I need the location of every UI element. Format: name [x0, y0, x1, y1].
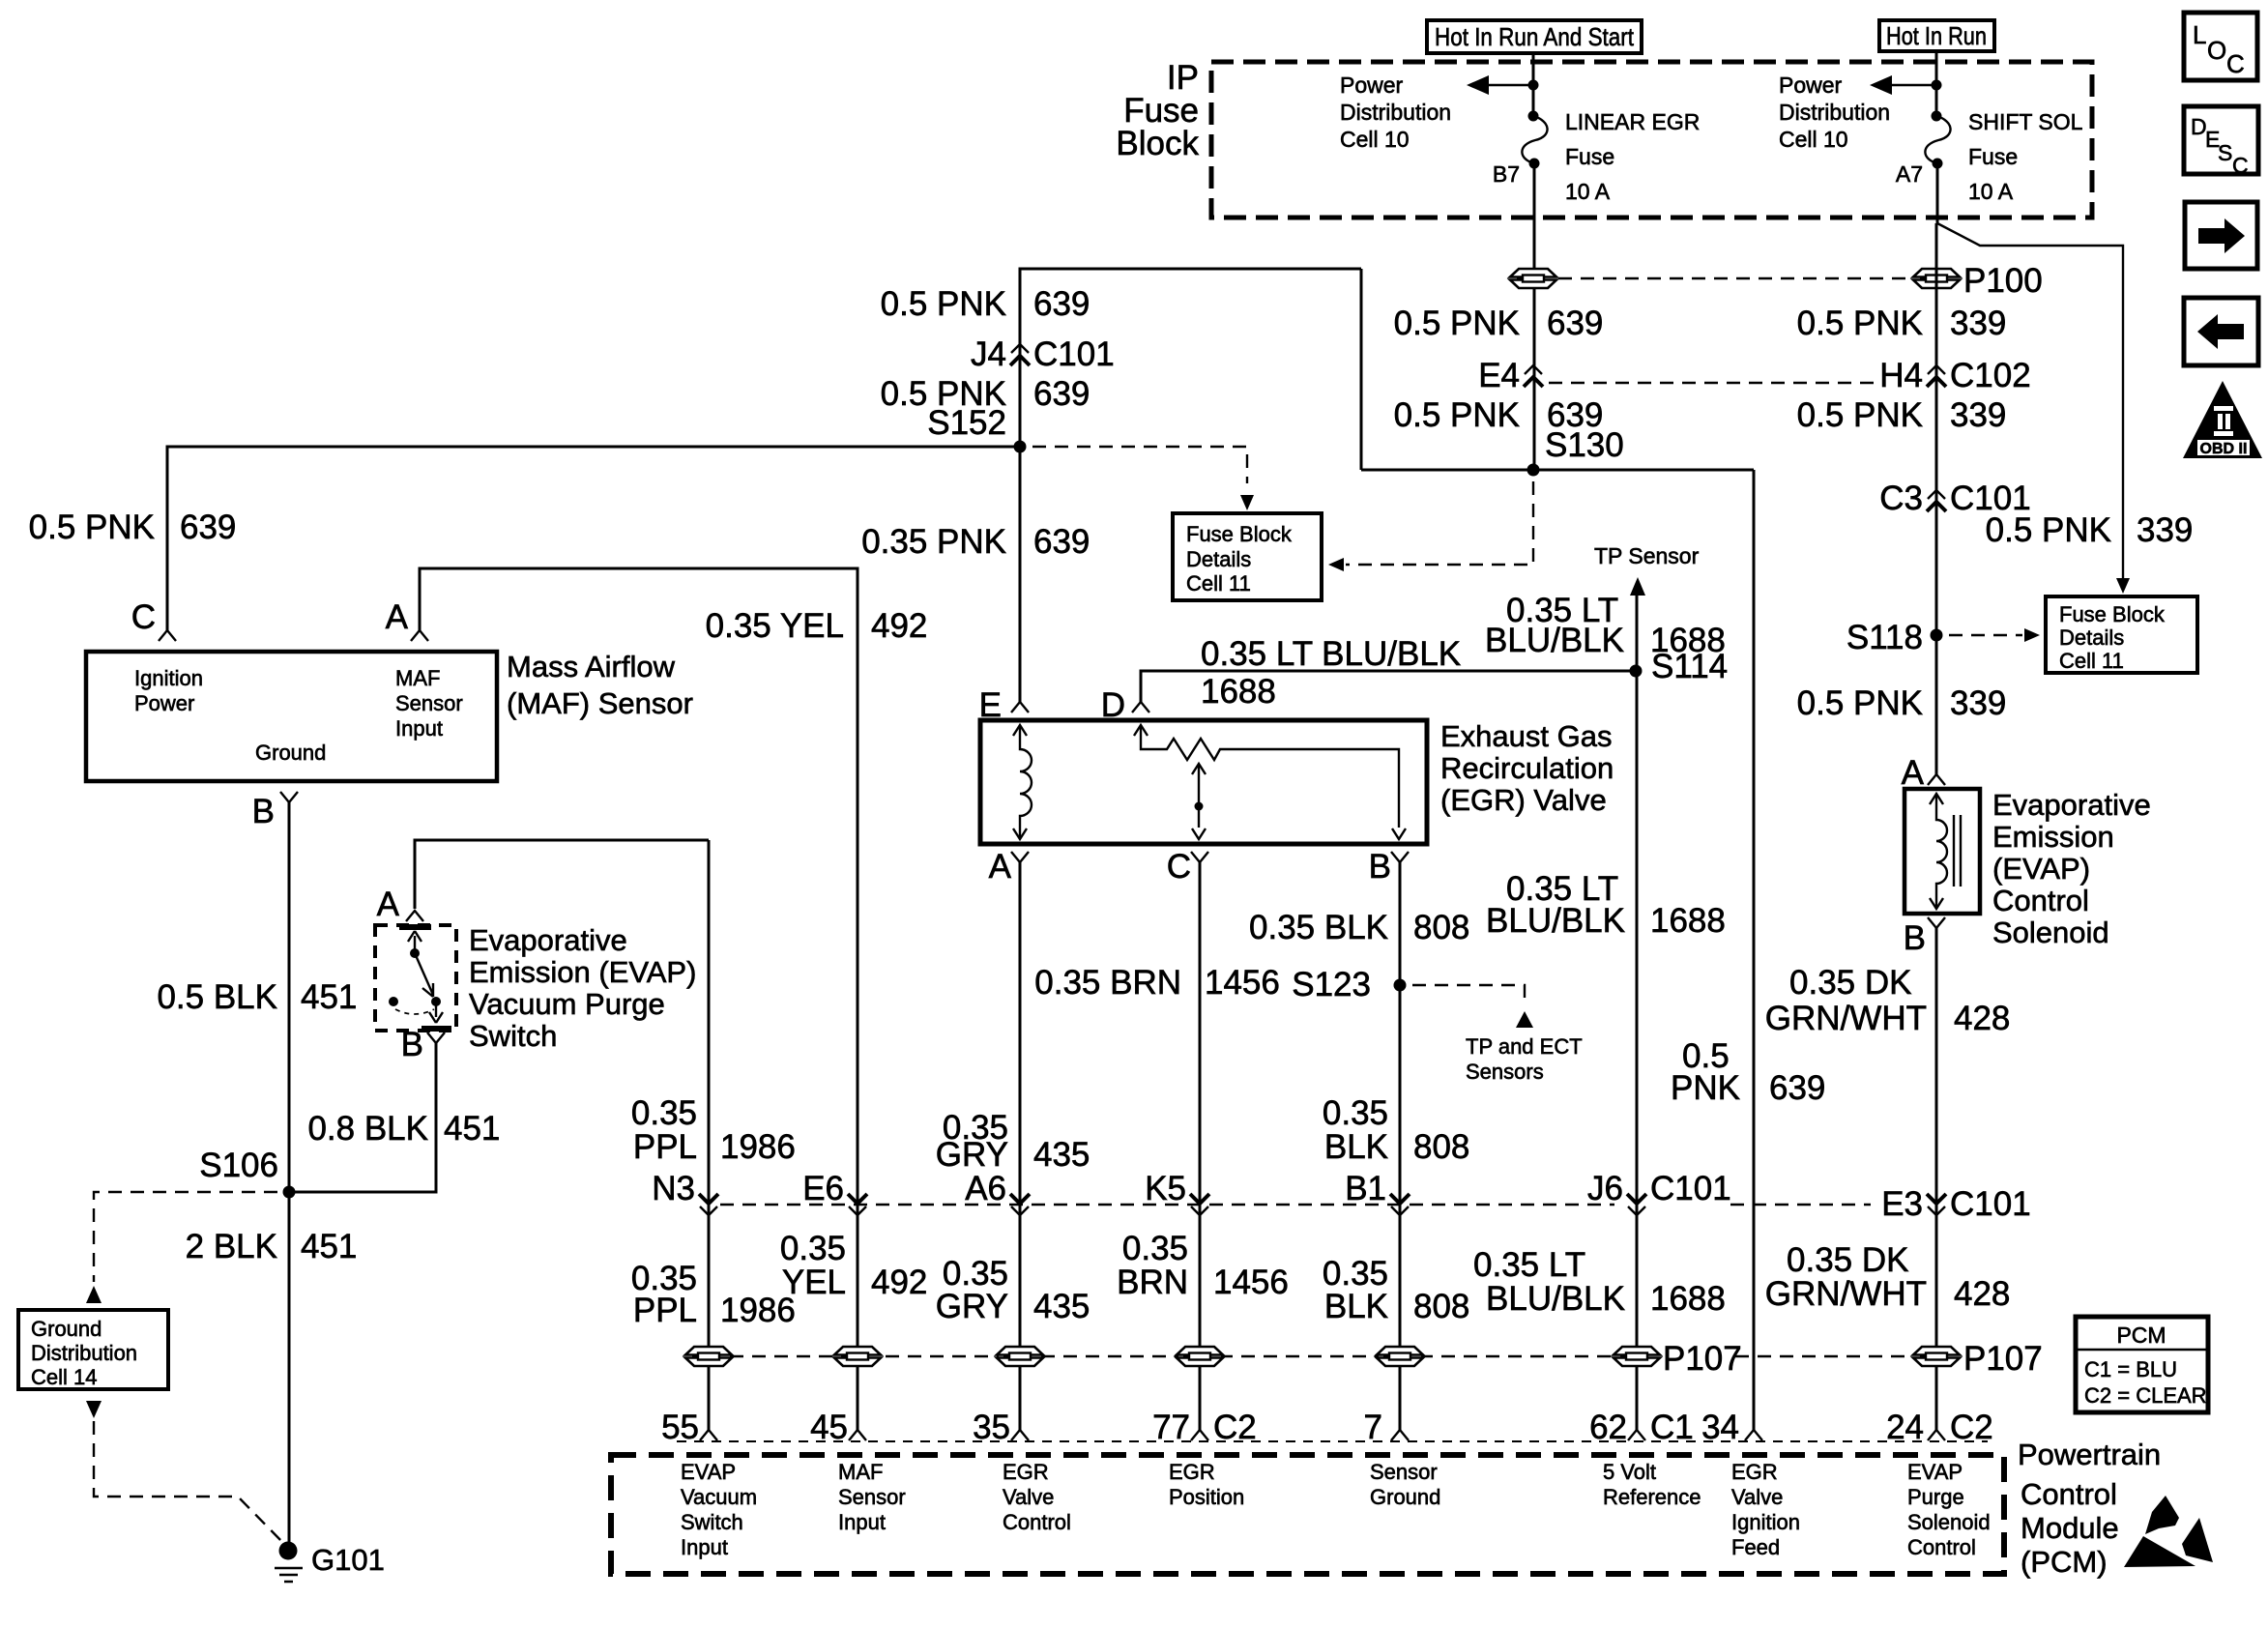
dashed pin face line [677, 1440, 1988, 1442]
switch right contact dot [431, 997, 441, 1006]
svg-text:Exhaust Gas: Exhaust Gas [1440, 719, 1612, 753]
component PCM (dashed box) [611, 1455, 2004, 1574]
svg-text:Sensor: Sensor [838, 1485, 906, 1509]
svg-text:GRY: GRY [936, 1288, 1008, 1325]
svg-text:Block: Block [1116, 125, 1199, 162]
svg-text:Fuse: Fuse [1565, 144, 1614, 169]
label TP and ECT Sensors [1466, 1034, 1583, 1084]
switch left contact dot [389, 997, 398, 1006]
label EGR Valve Ignition Feed [1731, 1460, 1800, 1559]
svg-text:GRN/WHT: GRN/WHT [1765, 1000, 1927, 1037]
svg-text:639: 639 [180, 509, 236, 546]
svg-text:C3: C3 [1879, 480, 1923, 517]
node Hot In Run [1879, 20, 1994, 51]
component MAF sensor box [86, 652, 497, 781]
svg-text:0.35 YEL: 0.35 YEL [706, 607, 844, 645]
label 0.35 LT BLU/BLK 1688 (below S114) [1486, 870, 1726, 940]
switch dashed travel arc [395, 1009, 434, 1014]
svg-text:EGR: EGR [1169, 1460, 1215, 1484]
svg-text:B: B [401, 1026, 423, 1063]
svg-text:639: 639 [1769, 1069, 1825, 1107]
wire S130 horizontal [1361, 469, 1754, 472]
label 5 Volt Reference [1603, 1460, 1701, 1509]
svg-text:BLK: BLK [1324, 1128, 1388, 1166]
svg-text:(EVAP): (EVAP) [1992, 852, 2090, 886]
svg-text:E3: E3 [1881, 1185, 1923, 1223]
svg-text:Evaporative: Evaporative [469, 923, 627, 957]
svg-text:J6: J6 [1587, 1170, 1623, 1207]
svg-text:MAF: MAF [395, 666, 440, 690]
svg-text:LINEAR EGR: LINEAR EGR [1565, 109, 1700, 134]
label 0.35 BLK 808 (upper) [1249, 909, 1469, 946]
component EVAP purge switch (dashed box) [375, 925, 456, 1031]
pin A of MAF [411, 630, 428, 641]
svg-text:BRN: BRN [1117, 1264, 1188, 1301]
svg-text:C: C [1167, 848, 1191, 886]
svg-text:Evaporative: Evaporative [1992, 788, 2151, 822]
label MAF Sensor Input [838, 1460, 906, 1534]
label 0.35 YEL 492 [706, 607, 928, 645]
svg-text:G101: G101 [311, 1543, 385, 1577]
svg-text:YEL: YEL [782, 1264, 846, 1301]
label Power Distribution Cell 10 (right) [1779, 73, 1890, 152]
svg-text:A: A [377, 886, 400, 923]
ESD sensitivity symbol [2124, 1496, 2213, 1567]
label 0.5 PNK 639 (above J4) [881, 285, 1090, 323]
label 0.35 BLK 808 (above B1) [1323, 1094, 1470, 1166]
label 0.5 BLK 451 [157, 978, 357, 1016]
svg-text:Power: Power [1779, 73, 1843, 98]
component EGR valve box [980, 720, 1427, 844]
junction dot [1932, 80, 1942, 91]
svg-text:5 Volt: 5 Volt [1603, 1460, 1656, 1484]
svg-text:L: L [2193, 20, 2206, 49]
wire branch to 339 feed (diagonal) [1937, 223, 2123, 580]
arrow into Fuse Block Details (S118) [2024, 628, 2040, 642]
svg-text:451: 451 [301, 978, 357, 1016]
icon forward arrow box [2185, 202, 2257, 269]
node PCM connector legend [2076, 1317, 2208, 1412]
svg-text:Input: Input [838, 1510, 886, 1534]
svg-text:Switch: Switch [469, 1019, 557, 1053]
svg-text:A7: A7 [1896, 161, 1923, 187]
label SHIFT SOL Fuse 10 A [1968, 109, 2083, 204]
EGR position sensor resistor [1134, 725, 1406, 839]
IP fuse block (dashed box) [1211, 62, 2092, 218]
svg-text:C: C [131, 598, 156, 636]
wire purge switch B to S106 [289, 1043, 436, 1192]
svg-text:Fuse: Fuse [1968, 144, 2018, 169]
label 0.35 PNK 639 [861, 523, 1090, 561]
svg-text:P107: P107 [1663, 1340, 1742, 1378]
svg-text:C101: C101 [1650, 1170, 1731, 1207]
svg-text:Distribution: Distribution [31, 1341, 137, 1365]
pin C of EGR [1191, 852, 1208, 862]
arrow to Power Distribution Cell 10 (left) [1467, 75, 1489, 95]
svg-text:A: A [989, 848, 1012, 886]
pin 7 [1391, 1430, 1409, 1440]
icon LOC box [2184, 13, 2257, 80]
svg-text:339: 339 [1950, 396, 2006, 434]
connector K5 C101 [1190, 1194, 1209, 1215]
label 0.5 PNK 639 (far left) [29, 509, 237, 546]
label EVAP Purge Solenoid Control [1907, 1460, 1991, 1559]
svg-text:0.35 DK: 0.35 DK [1789, 964, 1911, 1002]
svg-text:0.35: 0.35 [1323, 1094, 1388, 1132]
svg-text:Control: Control [2021, 1477, 2117, 1511]
label Ignition Power [134, 666, 203, 715]
svg-text:Ignition: Ignition [134, 666, 203, 690]
pin 62 C1 [1628, 1430, 1645, 1440]
label Power Distribution Cell 10 (left) [1340, 73, 1451, 152]
svg-text:0.35 BRN: 0.35 BRN [1034, 964, 1181, 1002]
connector P107 (62) [1614, 1347, 1660, 1366]
EGR position wiper [1192, 764, 1206, 839]
wire S152 to MAF ignition [167, 447, 1020, 630]
svg-text:0.5 PNK: 0.5 PNK [1797, 305, 1923, 342]
connector N3 C101 [699, 1194, 718, 1215]
svg-text:B7: B7 [1493, 161, 1520, 187]
svg-text:0.35: 0.35 [631, 1094, 697, 1132]
svg-text:Reference: Reference [1603, 1485, 1701, 1509]
label 0.35 BRN 1456 (lower) [1117, 1230, 1289, 1301]
svg-text:BLU/BLK: BLU/BLK [1485, 622, 1624, 659]
label 0.5 PNK 339 (feed wire right) [1986, 511, 2194, 549]
node Ground Distribution Cell 14 [18, 1310, 168, 1389]
svg-text:C102: C102 [1950, 357, 2031, 394]
inline connector (unnamed, P100 row) [1510, 269, 1556, 288]
pin 34 [1745, 1430, 1762, 1440]
svg-text:P107: P107 [1963, 1340, 2043, 1378]
switch blade [415, 953, 433, 997]
wire PNK 339 fuse A7 down [1936, 163, 1939, 223]
svg-text:Cell 10: Cell 10 [1779, 127, 1848, 152]
svg-text:OBD II: OBD II [2200, 441, 2248, 457]
wire corner from fuse block area down to J4 [1020, 269, 1361, 702]
svg-text:S106: S106 [199, 1147, 278, 1184]
svg-text:0.5 PNK: 0.5 PNK [1394, 396, 1520, 434]
wire PNK 339 down to EVAP solenoid [1935, 223, 1938, 774]
svg-text:EGR: EGR [1003, 1460, 1049, 1484]
pin B of MAF [280, 792, 298, 802]
dashed S123 to TP and ECT sensors [1412, 985, 1525, 1005]
connector P100 [1913, 269, 1960, 288]
svg-text:Solenoid: Solenoid [1992, 916, 2109, 949]
svg-text:1456: 1456 [1205, 964, 1280, 1002]
svg-text:339: 339 [2137, 511, 2193, 549]
node Fuse Block Details Cell 11 (right) [2046, 596, 2197, 673]
svg-text:Hot In Run And Start: Hot In Run And Start [1435, 22, 1635, 51]
svg-text:0.35 DK: 0.35 DK [1787, 1241, 1908, 1279]
fuse LINEAR EGR 10A [1522, 111, 1547, 169]
svg-text:Switch: Switch [681, 1510, 743, 1534]
wire PNK 639 fuse B7 down to S130 [1533, 163, 1536, 470]
svg-text:Position: Position [1169, 1485, 1244, 1509]
svg-text:Input: Input [395, 716, 443, 741]
svg-text:PNK: PNK [1671, 1069, 1740, 1107]
label 0.35 GRY 435 (upper) [936, 1109, 1090, 1174]
arrow to TP and ECT sensors [1516, 1011, 1533, 1028]
svg-text:808: 808 [1413, 1288, 1469, 1325]
svg-text:K5: K5 [1145, 1170, 1186, 1207]
svg-text:Solenoid: Solenoid [1907, 1510, 1991, 1534]
svg-text:BLU/BLK: BLU/BLK [1486, 1280, 1625, 1318]
label Exhaust Gas Recirculation (EGR) Valve [1440, 719, 1614, 817]
label 0.35 BRN 1456 (upper) [1034, 964, 1280, 1002]
svg-text:A: A [1902, 754, 1925, 792]
svg-text:Vacuum Purge: Vacuum Purge [469, 987, 665, 1021]
svg-text:428: 428 [1954, 1275, 2010, 1313]
svg-text:C: C [2232, 153, 2249, 178]
wire from Hot In Run to fuse [1935, 51, 1938, 116]
svg-text:H4: H4 [1879, 357, 1923, 394]
svg-text:0.35 LT BLU/BLK: 0.35 LT BLU/BLK [1201, 635, 1461, 673]
svg-text:Module: Module [2021, 1511, 2119, 1545]
svg-text:PPL: PPL [633, 1292, 697, 1329]
svg-text:MAF: MAF [838, 1460, 883, 1484]
wire EGR C down to pin 77 [1199, 862, 1202, 1430]
svg-text:C101: C101 [1033, 335, 1115, 373]
connector P107 lens (77) [1177, 1347, 1223, 1366]
connector H4 C102 [1927, 365, 1946, 387]
svg-text:Power: Power [134, 691, 194, 715]
arrow into Fuse Block Details (S152) [1240, 495, 1254, 510]
svg-text:Cell 11: Cell 11 [2059, 649, 2124, 673]
EVAP solenoid coil [1930, 794, 1947, 909]
svg-text:B: B [1904, 919, 1926, 957]
svg-text:S123: S123 [1292, 966, 1371, 1003]
svg-text:EGR: EGR [1731, 1460, 1778, 1484]
pin A of EVAP solenoid [1928, 774, 1945, 785]
svg-text:Mass Airflow: Mass Airflow [507, 650, 676, 683]
wire MAF A to YEL 492 [420, 568, 858, 1430]
connector E4 [1524, 365, 1543, 387]
svg-text:(PCM): (PCM) [2021, 1545, 2108, 1579]
svg-text:Feed: Feed [1731, 1535, 1780, 1559]
svg-text:TP Sensor: TP Sensor [1594, 543, 1700, 568]
svg-text:Emission: Emission [1992, 820, 2114, 854]
svg-text:0.8 BLK: 0.8 BLK [307, 1110, 428, 1148]
svg-text:0.35 BLK: 0.35 BLK [1249, 909, 1388, 946]
pin B of EGR [1391, 852, 1409, 862]
svg-text:Details: Details [2059, 625, 2124, 650]
svg-text:435: 435 [1033, 1288, 1090, 1325]
switch bottom contact bar [422, 1026, 451, 1032]
junction dot [1528, 80, 1539, 91]
node Hot In Run And Start [1427, 20, 1642, 53]
svg-text:SHIFT SOL: SHIFT SOL [1968, 109, 2083, 134]
arrow to Power Distribution Cell 10 (right) [1870, 75, 1892, 95]
wire EGR D to S114 [1141, 671, 1636, 702]
svg-text:639: 639 [1547, 305, 1603, 342]
wire EGR A down to pin 35 [1019, 862, 1022, 1430]
svg-text:Powertrain: Powertrain [2018, 1438, 2161, 1471]
svg-text:BLU/BLK: BLU/BLK [1486, 902, 1625, 940]
svg-text:(MAF) Sensor: (MAF) Sensor [507, 686, 693, 720]
arrow into Fuse Block Details (S130) [1328, 558, 1344, 571]
svg-text:C: C [2226, 49, 2245, 78]
svg-text:E: E [979, 686, 1002, 724]
dashed E4 row [1549, 382, 1878, 384]
wire vertical into S130 line [1360, 269, 1363, 470]
svg-text:Sensors: Sensors [1466, 1060, 1544, 1084]
svg-text:EVAP: EVAP [1907, 1460, 1963, 1484]
dashed S106 to ground distribution [94, 1192, 277, 1282]
connector A6 C101 [1010, 1194, 1030, 1215]
svg-text:Emission (EVAP): Emission (EVAP) [469, 955, 696, 989]
arrow out of Ground Distribution box [86, 1401, 102, 1418]
connector P107 lens (35) [997, 1347, 1043, 1366]
label 0.5 PNK 639 (above E4) [1394, 305, 1604, 342]
pin 35 [1011, 1430, 1029, 1440]
svg-text:Purge: Purge [1907, 1485, 1964, 1509]
svg-text:Sensor: Sensor [395, 691, 463, 715]
pin 24 C2 [1928, 1430, 1945, 1440]
wire purge switch A to PPL wire [415, 840, 709, 909]
pin D of EGR [1132, 702, 1149, 712]
icon DESC box [2184, 106, 2258, 178]
connector B1 C101 [1390, 1194, 1410, 1215]
wire MAF ground to G101 [288, 802, 291, 1543]
svg-text:Hot In Run: Hot In Run [1886, 21, 1987, 50]
svg-text:S114: S114 [1651, 648, 1728, 685]
svg-text:Control: Control [1003, 1510, 1071, 1534]
label 0.5 PNK 639 (ignition feed) [1671, 1037, 1825, 1107]
label LINEAR EGR Fuse 10 A [1565, 109, 1700, 204]
connector E3 C101 [1927, 1194, 1946, 1215]
ground G101 [275, 1542, 303, 1583]
label 0.5 PNK 339 (above H4) [1797, 305, 2007, 342]
label 0.35 YEL 492 (lower) [780, 1230, 928, 1301]
svg-text:639: 639 [1033, 523, 1090, 561]
pin B of purge switch [427, 1032, 445, 1043]
svg-text:S130: S130 [1545, 426, 1624, 464]
svg-text:E6: E6 [802, 1170, 844, 1207]
pin A of EGR [1011, 852, 1029, 862]
wire from Hot In Run And Start to fuse [1532, 53, 1535, 116]
svg-text:492: 492 [871, 607, 927, 645]
label 2 BLK 451 [186, 1228, 358, 1265]
svg-text:B: B [1369, 848, 1391, 886]
svg-text:435: 435 [1033, 1136, 1090, 1174]
svg-text:D: D [1101, 686, 1125, 724]
label 0.35 BLK 808 (lower) [1323, 1255, 1470, 1325]
switch fixed contact bar [399, 924, 431, 930]
svg-text:Vacuum: Vacuum [681, 1485, 757, 1509]
label 0.5 PNK 339 (below H4) [1797, 396, 2007, 434]
pin 77 C2 [1191, 1430, 1208, 1440]
svg-text:0.35 PNK: 0.35 PNK [861, 523, 1006, 561]
svg-text:Recirculation: Recirculation [1440, 751, 1614, 785]
EGR solenoid coil [1013, 725, 1032, 839]
label 0.35 PPL 1986 (lower) [631, 1260, 796, 1329]
pin 45 [849, 1430, 866, 1440]
svg-text:Input: Input [681, 1535, 728, 1559]
connector P107 lens (45) [834, 1347, 881, 1366]
connector J6 C101 [1627, 1194, 1646, 1215]
svg-text:451: 451 [301, 1228, 357, 1265]
icon back arrow box [2184, 298, 2258, 365]
svg-text:EVAP: EVAP [681, 1460, 736, 1484]
svg-text:S118: S118 [1846, 619, 1923, 656]
label 0.5 PNK 639 (below J4) [881, 375, 1090, 413]
svg-text:2 BLK: 2 BLK [186, 1228, 277, 1265]
svg-text:Valve: Valve [1731, 1485, 1783, 1509]
label 0.5 PNK 639 (below E4) [1394, 396, 1604, 434]
svg-text:10 A: 10 A [1968, 179, 2014, 204]
switch pivot dot [410, 948, 420, 958]
wire EVAP solenoid B down to pin 24 [1935, 928, 1938, 1430]
svg-text:639: 639 [1033, 375, 1090, 413]
svg-text:1986: 1986 [720, 1128, 796, 1166]
svg-text:0.35 LT: 0.35 LT [1473, 1246, 1585, 1284]
label 0.35 GRY 435 (lower) [936, 1255, 1090, 1325]
label EVAP Vacuum Switch Input [681, 1460, 757, 1559]
wire EVAP vacuum switch input down to pin 55 [708, 840, 711, 1430]
connector J4 C101 [1010, 344, 1030, 365]
connector P107 lens (55) [685, 1347, 732, 1366]
label Powertrain Control Module (PCM) [2018, 1438, 2161, 1579]
svg-text:B: B [252, 793, 275, 830]
svg-text:B1: B1 [1345, 1170, 1386, 1207]
switch upper arrow [408, 931, 422, 951]
svg-text:451: 451 [444, 1110, 500, 1148]
dashed tie to P100 [1558, 277, 1911, 279]
svg-text:PCM: PCM [2116, 1323, 2166, 1348]
label 0.35 LT BLU/BLK 1688 (S114) [1485, 592, 1726, 659]
svg-text:S152: S152 [927, 404, 1006, 442]
dashed P107 row [730, 1355, 1909, 1357]
svg-text:A: A [386, 598, 409, 636]
pin 55 [700, 1430, 717, 1440]
svg-text:808: 808 [1413, 1128, 1469, 1166]
svg-text:Control: Control [1992, 884, 2089, 917]
connector E6 C101 [848, 1194, 867, 1215]
svg-text:339: 339 [1950, 305, 2006, 342]
svg-text:GRY: GRY [936, 1136, 1008, 1174]
fuse SHIFT SOL 10A [1925, 111, 1950, 169]
pin C of MAF [159, 630, 176, 641]
svg-text:P100: P100 [1963, 262, 2043, 300]
svg-text:339: 339 [1950, 684, 2006, 722]
connector P107 lens (7) [1377, 1347, 1423, 1366]
svg-text:N3: N3 [652, 1170, 695, 1207]
svg-text:Valve: Valve [1003, 1485, 1054, 1509]
dashed C101 row [720, 1204, 1871, 1206]
svg-text:Ground: Ground [1370, 1485, 1440, 1509]
svg-text:1456: 1456 [1213, 1264, 1289, 1301]
svg-text:10 A: 10 A [1565, 179, 1611, 204]
svg-text:428: 428 [1954, 1000, 2010, 1037]
label 0.35 DK GRN/WHT 428 (upper) [1765, 964, 2011, 1037]
svg-text:808: 808 [1413, 909, 1469, 946]
svg-text:0.5 PNK: 0.5 PNK [1797, 396, 1923, 434]
label IP Fuse Block [1116, 59, 1199, 162]
svg-text:0.35: 0.35 [780, 1230, 846, 1267]
svg-text:Ground: Ground [31, 1317, 102, 1341]
svg-text:PPL: PPL [633, 1128, 697, 1166]
wire Power Distribution branch right [1889, 84, 1936, 86]
svg-text:0.5 PNK: 0.5 PNK [1797, 684, 1923, 722]
pin A of purge switch [406, 911, 423, 921]
label 0.8 BLK 451 [307, 1110, 500, 1148]
svg-text:Fuse Block: Fuse Block [2059, 602, 2166, 626]
svg-text:E4: E4 [1478, 357, 1520, 394]
svg-text:Cell 10: Cell 10 [1340, 127, 1410, 152]
svg-text:0.5 PNK: 0.5 PNK [881, 285, 1006, 323]
icon OBD II triangle [2183, 381, 2262, 458]
svg-text:Distribution: Distribution [1340, 100, 1451, 125]
